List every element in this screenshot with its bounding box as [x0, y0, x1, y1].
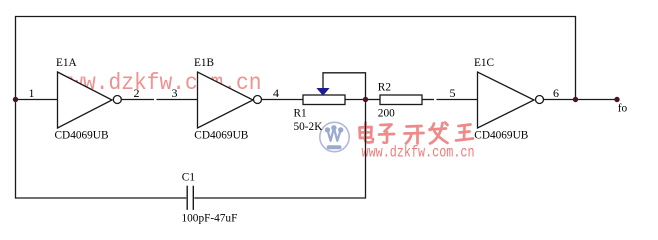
wire left vertical to bottom — [16, 100, 187, 199]
wire feedback top — [16, 17, 576, 100]
svg-text:6: 6 — [553, 86, 559, 100]
svg-text:R1: R1 — [294, 108, 307, 120]
wire E1A out pin 2 — [122, 99, 155, 101]
node fo terminal dot — [614, 97, 619, 102]
inverter gate E1B CD4069UB — [194, 57, 262, 142]
wire R1 wiper loop — [323, 73, 366, 99]
svg-text:5: 5 — [450, 86, 456, 100]
wire pin 3 to E1B — [157, 99, 198, 101]
wire E1C out pin 6 to fo — [544, 99, 618, 101]
svg-text:50-2K: 50-2K — [294, 121, 324, 133]
svg-text:3: 3 — [172, 86, 178, 100]
svg-text:fo: fo — [618, 103, 628, 115]
watermark chinese char wang — [456, 125, 473, 141]
inverter gate E1C CD4069UB — [474, 57, 544, 142]
svg-text:E1C: E1C — [474, 57, 494, 69]
svg-text:CD4069UB: CD4069UB — [55, 130, 109, 142]
watermark chinese char fa — [430, 123, 448, 144]
svg-text:R2: R2 — [378, 82, 392, 94]
wire R1 to junction — [345, 99, 366, 101]
svg-text:100pF-47uF: 100pF-47uF — [182, 213, 238, 225]
svg-text:C1: C1 — [182, 172, 195, 184]
watermark chinese char zi — [379, 125, 394, 143]
node R1/R2 junction — [363, 97, 368, 102]
wire bottom right segment — [194, 100, 365, 198]
wire pin 5 to E1C — [437, 99, 478, 101]
capacitor C1 — [182, 172, 238, 225]
inverter gate E1A CD4069UB — [55, 57, 122, 142]
svg-text:E1A: E1A — [56, 57, 78, 69]
svg-text:www.dzkfw.com.cn: www.dzkfw.com.cn — [362, 144, 475, 162]
wire R2 out — [422, 99, 434, 101]
wire junction to R2 — [366, 99, 381, 101]
wire node1 to E1A input — [16, 99, 58, 101]
svg-text:CD4069UB: CD4069UB — [194, 130, 248, 142]
svg-text:E1B: E1B — [194, 57, 214, 69]
resistor R1 (potentiometer) — [294, 88, 346, 133]
svg-text:CD4069UB: CD4069UB — [474, 130, 528, 142]
svg-text:200: 200 — [378, 107, 395, 119]
watermark logo circle — [320, 122, 349, 151]
svg-text:4: 4 — [273, 86, 279, 100]
resistor R2 — [378, 82, 422, 120]
svg-text:1: 1 — [29, 86, 35, 100]
wire E1B out pin 4 to R1 — [262, 99, 304, 101]
watermark chinese char dian — [360, 123, 374, 143]
node 1 junction — [13, 97, 18, 102]
watermark chinese char kai — [405, 126, 424, 144]
svg-text:2: 2 — [134, 86, 140, 100]
node 6 feedback junction — [573, 97, 578, 102]
